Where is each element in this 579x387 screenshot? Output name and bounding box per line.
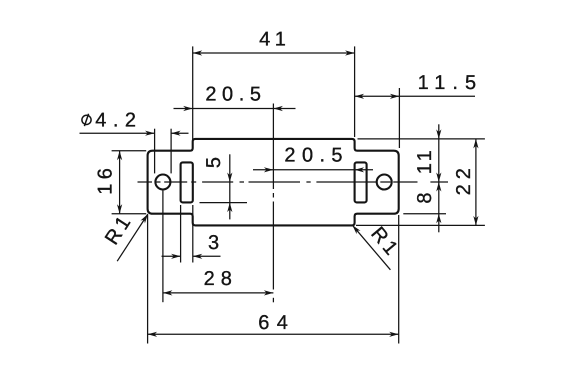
leader R1 right [352,225,390,270]
tail line dia 4.2 right [171,132,188,134]
slot left [181,162,193,202]
arrow 3 right [193,254,203,259]
arrow 3 left [171,254,181,259]
dim line 16 [119,151,121,214]
witness line right of hole dia [170,129,172,174]
svg-text:4.2: 4.2 [95,110,142,132]
dim line 64 [148,333,399,335]
witness line slot bottom [200,202,248,204]
witness line slot left edge [180,205,182,263]
hole right [377,175,392,190]
dim line 28 [163,292,274,294]
svg-text:3: 3 [208,232,224,254]
svg-text:11: 11 [414,147,436,174]
arrow 11 top [436,129,441,139]
arrow 41 left [193,50,203,55]
arrow 5 up [227,203,232,213]
svg-text:5: 5 [203,153,225,169]
witness line hole center [162,191,164,303]
arrow 11.5 left [355,94,365,99]
dim line 22 [475,139,477,226]
witness line slot right edge [192,205,194,263]
witness line bottom of dim 16 [112,213,147,215]
dim line 20.5 top [174,108,296,110]
arrow dia left [145,131,155,136]
arrow 16 top [117,151,122,161]
arrow 64 right [389,332,399,337]
svg-text:8: 8 [414,188,436,204]
slot right [355,162,367,202]
vertical centerline [272,104,274,303]
arrow 64 left [148,332,158,337]
svg-text:28: 28 [204,268,238,290]
witness line ear bottom right [403,213,446,215]
arrow 28 left [163,290,173,295]
dim line 5 [229,154,231,219]
arrow R1 right [352,225,360,234]
arrow 20.5 top right [273,106,283,111]
arrow 11 bottom [436,182,441,192]
witness line right of dim 41 [354,46,356,137]
arrow 20.5 middle right [355,167,365,172]
hole left [155,175,170,190]
dim line 41 [193,52,355,54]
arrow 20.5 top left [183,106,193,111]
arrow 11.5 right [390,94,400,99]
leader R1 left [117,214,148,261]
svg-text:22: 22 [453,163,475,195]
svg-text:41: 41 [259,28,290,50]
arrow R1 left [141,214,148,223]
dim line 11.5 [355,95,475,97]
svg-text:20.5: 20.5 [284,145,349,167]
horizontal centerline [138,181,449,183]
label dia 4.2 [82,114,91,126]
leader line dia 4.2 left [80,132,155,134]
svg-text:16: 16 [95,164,117,195]
arrow 20.5 middle left [264,167,274,172]
witness line right of dim 11.5 [398,88,400,148]
arrow 28 right [264,290,274,295]
tail line 3 left [162,255,181,257]
arrow dia right [171,131,181,136]
witness line body top right [358,138,485,140]
arrow 16 bottom [117,204,122,214]
witness line top of dim 16 [112,150,147,152]
witness line part left [147,215,149,344]
svg-text:64: 64 [258,312,295,334]
arrow 5 down [227,173,232,183]
arrow 22 top [473,139,478,149]
witness line left of hole dia [154,129,156,174]
tail line 3 right [193,255,221,257]
dim line 11 and 8 [438,124,440,232]
part outline [148,139,399,226]
witness line part right [398,215,400,344]
arrow 8 bottom [436,214,441,224]
dim line 20.5 middle [253,169,373,171]
arrow 8 top [436,173,441,183]
arrow 22 bottom [473,216,478,226]
arrow 41 right [345,50,355,55]
svg-text:20.5: 20.5 [205,84,266,106]
witness line left of dim 41 [192,46,194,149]
witness line body bottom right [356,224,485,226]
svg-text:11.5: 11.5 [418,72,483,94]
